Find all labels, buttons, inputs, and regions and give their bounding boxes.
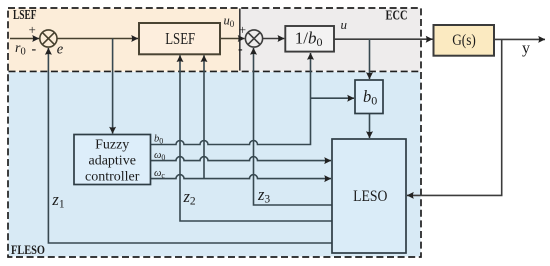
- svg-text:y: y: [522, 40, 530, 57]
- svg-text:controller: controller: [85, 170, 140, 185]
- svg-text:Fuzzy: Fuzzy: [95, 138, 129, 153]
- svg-text:+: +: [239, 22, 246, 37]
- svg-text:FLESO: FLESO: [11, 243, 45, 257]
- svg-text:G(s): G(s): [452, 32, 476, 49]
- svg-text:-: -: [32, 42, 37, 57]
- svg-text:LESO: LESO: [353, 188, 387, 205]
- svg-text:u: u: [341, 17, 348, 32]
- svg-text:adaptive: adaptive: [88, 154, 135, 169]
- svg-text:-: -: [238, 42, 243, 57]
- svg-text:ECC: ECC: [386, 9, 408, 24]
- svg-text:LSEF: LSEF: [13, 7, 37, 22]
- svg-text:LSEF: LSEF: [165, 29, 195, 48]
- svg-text:+: +: [29, 22, 36, 37]
- svg-text:e: e: [57, 41, 64, 57]
